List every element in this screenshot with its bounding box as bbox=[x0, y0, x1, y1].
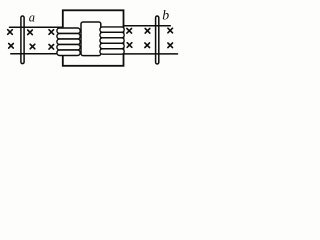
wire: left top rail bbox=[10, 26, 63, 28]
field mark x R1 bbox=[127, 29, 132, 34]
field mark x R5 bbox=[145, 43, 150, 48]
winding W1 turn 3 bbox=[57, 39, 80, 45]
core window bbox=[81, 22, 101, 56]
svg-text:b: b bbox=[162, 8, 169, 23]
wire: right bottom rail bbox=[123, 53, 177, 55]
svg-text:a: a bbox=[29, 10, 35, 24]
field mark x R3 bbox=[168, 28, 173, 33]
loop b (right hairpin) bbox=[156, 16, 159, 64]
winding W2 turn 4 bbox=[100, 43, 124, 48]
field mark x R6 bbox=[168, 43, 173, 48]
winding W1 turn 2 bbox=[57, 34, 80, 40]
winding W2 turn 2 bbox=[100, 32, 124, 37]
winding W2 turn 3 bbox=[100, 38, 124, 43]
field mark x L1 bbox=[8, 30, 13, 35]
winding W1 turn 1 bbox=[57, 28, 80, 34]
winding W1 turn 5 bbox=[57, 50, 80, 56]
wire: right top rail bbox=[123, 25, 170, 27]
core (outer boundary) bbox=[63, 10, 124, 66]
field marks (x = B into page) bbox=[8, 28, 173, 49]
wire: left bottom rail bbox=[11, 53, 63, 55]
winding W1 turn 4 bbox=[57, 45, 80, 51]
winding W2 turn 5 bbox=[100, 49, 124, 54]
field mark x L5 bbox=[30, 44, 35, 49]
field mark x L2 bbox=[28, 30, 33, 35]
field mark x L4 bbox=[9, 44, 14, 49]
field mark x L3 bbox=[49, 30, 54, 35]
loop a (left hairpin) bbox=[21, 16, 24, 64]
field mark x R2 bbox=[145, 29, 150, 34]
field mark x R4 bbox=[127, 43, 132, 48]
winding W2 turn 1 bbox=[100, 27, 124, 32]
field mark x L6 bbox=[49, 45, 54, 50]
